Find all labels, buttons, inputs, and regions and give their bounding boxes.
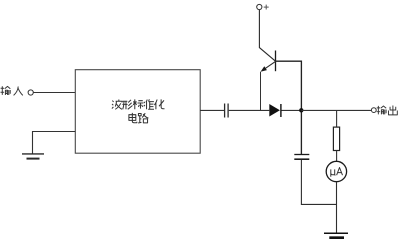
wire box output to capacitor C1 — [200, 109, 224, 111]
wire box lower-left to ground — [33, 132, 76, 154]
transistor Q1 base bar — [275, 51, 277, 72]
meter M1 (μA) circle — [326, 161, 346, 181]
wire base to node (right then down) — [276, 61, 302, 154]
label "输出" (output) — [377, 105, 398, 114]
box label line2 电路 — [129, 113, 149, 123]
wire node to output terminal — [301, 109, 371, 111]
transistor Q1 emitter with arrow — [264, 61, 276, 69]
capacitor C2 plates — [294, 155, 309, 160]
label "输入" (input) — [1, 86, 23, 95]
box label line1 波形标准化 — [112, 99, 165, 109]
wire resistor to meter — [336, 151, 338, 162]
wire emitter down to main line — [260, 72, 262, 111]
wire main line down to resistor R1 — [336, 110, 338, 127]
capacitor C1 (coupling) — [225, 104, 229, 118]
wire meter to ground — [336, 182, 338, 233]
wire diode cathode to node — [282, 109, 302, 111]
supply terminal + — [257, 4, 262, 9]
wire input terminal to box — [34, 92, 76, 94]
wire C2 bottom down and right to meter branch — [301, 160, 336, 205]
ground (right) — [324, 233, 348, 237]
block box 波形标准化电路 — [75, 70, 200, 154]
input terminal circle — [28, 90, 33, 95]
diode D1 — [269, 104, 280, 117]
junction dot node A — [299, 108, 303, 112]
ground (left) — [22, 154, 44, 159]
output terminal circle — [371, 108, 376, 113]
wire C1 to diode anode (through emitter junction) — [229, 109, 270, 111]
transistor Q1 collector wire from + — [259, 10, 275, 61]
resistor R1 — [333, 127, 339, 150]
